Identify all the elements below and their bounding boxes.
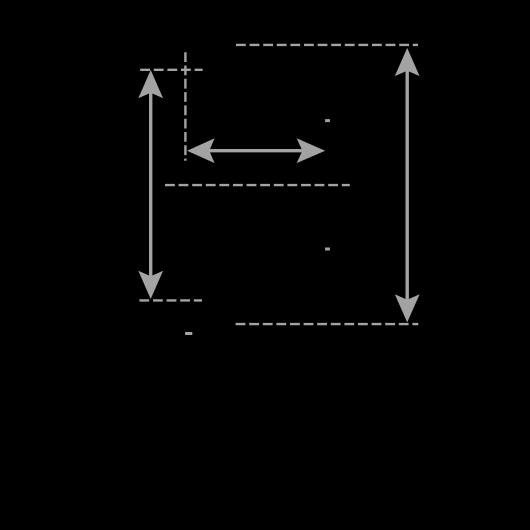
hyphen mark 3 (label fragment) (185, 332, 192, 335)
vertical dashed line (element left edge) (184, 52, 186, 161)
horizontal double arrow (element width) (187, 138, 325, 163)
top dashed line (page top) (236, 44, 418, 46)
bottom-left short dashed line (viewport bottom) (139, 299, 202, 301)
hyphen mark 1 (label fragment) (325, 119, 330, 122)
left vertical double arrow (viewport height) (138, 70, 163, 299)
hyphen mark 2 (label fragment) (325, 248, 330, 251)
bottom dashed line (page bottom) (236, 323, 419, 325)
middle dashed line (element bottom) (165, 184, 350, 186)
right vertical double arrow (page height) (395, 48, 420, 323)
top-left short dashed line (viewport top) (140, 69, 202, 71)
